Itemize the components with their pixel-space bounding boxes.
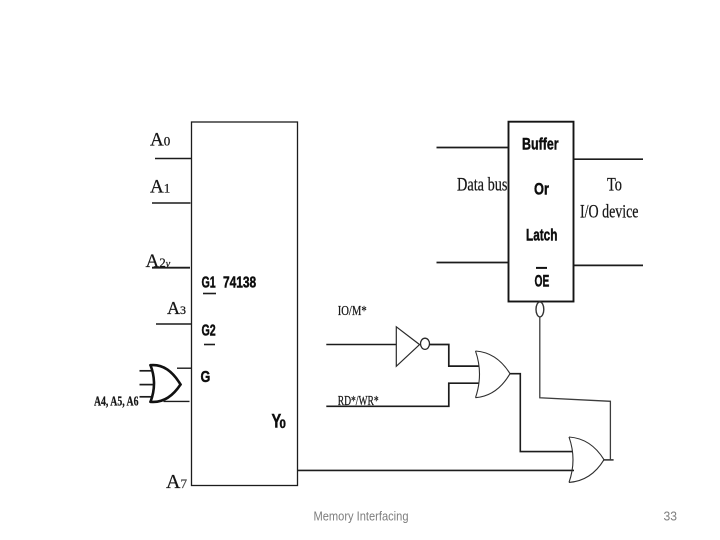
buffer/latch box U2: [509, 122, 574, 302]
74138 decoder U1: [192, 122, 298, 486]
svg-text:33: 33: [664, 510, 678, 524]
svg-text:G1: G1: [202, 275, 216, 292]
svg-text:0: 0: [280, 417, 287, 431]
wire A0: [155, 158, 192, 160]
inverter U3: [396, 327, 419, 367]
svg-text:G: G: [201, 369, 211, 386]
svg-text:Data bus: Data bus: [457, 175, 508, 196]
svg-text:Or: Or: [534, 181, 549, 199]
or-gate OR2: [569, 437, 604, 482]
label G2: [202, 323, 216, 345]
wire A1: [152, 202, 191, 204]
svg-text:Buffer: Buffer: [522, 136, 559, 154]
wire inverter output: [430, 345, 479, 367]
wire OR2 output: [604, 459, 614, 461]
svg-text:Memory Interfacing: Memory Interfacing: [314, 510, 409, 524]
svg-text:OE: OE: [535, 272, 550, 291]
wire Y0 output: [298, 469, 575, 471]
wire IO/M*: [326, 344, 396, 346]
label OE with overline: [535, 268, 550, 291]
inverter bubble: [421, 338, 430, 349]
svg-text:A4, A5, A6: A4, A5, A6: [94, 394, 139, 409]
or-gate OR3 (A4,A5,A6 inputs, bold): [151, 365, 181, 402]
OE bubble: [536, 302, 544, 317]
wire OR1 output to OR2: [510, 374, 573, 452]
svg-text:IO/M*: IO/M*: [338, 304, 367, 319]
or-gate OR1: [476, 351, 511, 398]
svg-text:To: To: [607, 175, 622, 196]
svg-text:A1: A1: [150, 177, 170, 198]
wire OR3 input stub 2: [140, 384, 154, 386]
svg-text:G2: G2: [202, 323, 216, 340]
svg-text:A0: A0: [150, 130, 170, 151]
wire data bus top: [437, 147, 509, 149]
wire A2: [152, 267, 190, 269]
wire to I/O bottom: [574, 264, 644, 266]
svg-text:74138: 74138: [223, 275, 256, 292]
wire A3: [156, 323, 192, 325]
svg-text:Latch: Latch: [526, 227, 557, 245]
wire OR3 input stub 1: [140, 370, 152, 372]
label G1 74138: [202, 275, 257, 294]
wire OE feedback: [540, 317, 611, 461]
svg-text:I/O device: I/O device: [580, 202, 639, 223]
wire OR3 output to G: [177, 367, 192, 369]
wire to I/O top: [574, 158, 644, 160]
wire data bus bottom: [437, 262, 509, 264]
wire OR3 input stub 3: [140, 396, 152, 398]
wire RD*/WR*: [326, 383, 479, 406]
wire below OR3 to box: [164, 400, 190, 402]
